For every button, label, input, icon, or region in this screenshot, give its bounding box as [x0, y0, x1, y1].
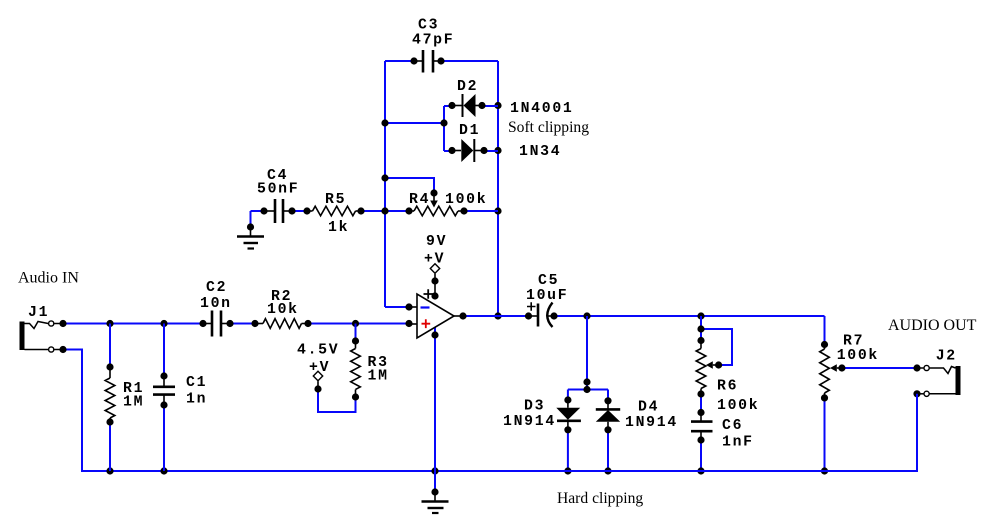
svg-text:C1: C1 — [186, 375, 207, 391]
potentiometer R6 — [696, 341, 718, 395]
svg-text:1M: 1M — [368, 369, 389, 385]
label C3 — [418, 18, 439, 34]
svg-text:D2: D2 — [457, 79, 478, 95]
wire: R5 / R4 row — [251, 207, 499, 227]
label C2 — [206, 280, 227, 296]
capacitor C4 — [264, 199, 292, 223]
svg-text:+V: +V — [424, 252, 445, 268]
label 50nF — [257, 182, 299, 198]
svg-text:10n: 10n — [200, 296, 232, 312]
svg-text:1k: 1k — [328, 220, 349, 236]
wire: D1 row — [444, 147, 498, 154]
svg-text:10uF: 10uF — [526, 288, 568, 304]
wire: R1 legs — [106, 324, 113, 472]
svg-text:R5: R5 — [325, 192, 346, 208]
wire: input signal row J1 tip to C2 — [59, 320, 206, 327]
svg-text:1N914: 1N914 — [503, 414, 556, 430]
wire: C3 top row — [385, 57, 498, 64]
wire: op-amp output row — [459, 312, 824, 344]
svg-text:1N914: 1N914 — [625, 415, 678, 431]
connector J2 output jack — [918, 365, 961, 396]
svg-text:50nF: 50nF — [257, 182, 299, 198]
label D3 — [524, 399, 545, 415]
wire: ground rail — [59, 346, 917, 475]
svg-text:C6: C6 — [722, 418, 743, 434]
capacitor C2 — [203, 311, 230, 337]
label 1N914 D3 — [503, 414, 556, 430]
resistor R1 — [105, 367, 115, 422]
label J1 — [28, 305, 49, 321]
svg-text:4.5V: 4.5V — [297, 343, 339, 359]
label Hard clipping — [557, 490, 643, 507]
label D1 — [459, 123, 480, 139]
label Soft clipping — [508, 119, 589, 136]
label 1M R1 — [123, 395, 144, 411]
svg-text:D3: D3 — [524, 399, 545, 415]
svg-text:1nF: 1nF — [722, 435, 754, 451]
label 100k R6 — [717, 398, 759, 414]
ground main — [422, 488, 449, 513]
label 1N34 — [519, 144, 561, 160]
label J2 — [936, 349, 957, 365]
wire: D3 to ground rail — [564, 426, 571, 474]
wire: op-amp negative rail to ground — [431, 328, 438, 493]
label 1N914 D4 — [625, 415, 678, 431]
power +V 9V — [430, 264, 439, 300]
wire: D2 row — [444, 102, 498, 109]
label +V 9V — [424, 252, 445, 268]
wire: R2 to op-amp non-inverting input — [304, 320, 412, 327]
svg-text:J1: J1 — [28, 305, 49, 321]
label R3 — [368, 355, 389, 371]
connector J1 input jack — [20, 321, 61, 352]
label 100k R7 — [837, 348, 879, 364]
wire: clipping diodes drop — [564, 316, 611, 404]
diode D1 — [452, 139, 484, 162]
svg-text:R6: R6 — [717, 379, 738, 395]
capacitor C6 — [691, 413, 713, 441]
resistor R2 — [255, 319, 308, 329]
ground for C4 — [237, 223, 264, 248]
label R7 — [843, 334, 864, 350]
label AUDIO OUT — [888, 317, 977, 334]
label +V 4.5V — [309, 360, 330, 376]
svg-text:C5: C5 — [538, 273, 559, 289]
wire: J2 sleeve drop — [913, 390, 920, 471]
svg-text:100k: 100k — [837, 348, 879, 364]
label Audio IN — [18, 270, 79, 287]
svg-text:Hard clipping: Hard clipping — [557, 490, 643, 507]
svg-text:100k: 100k — [445, 192, 487, 208]
wire: D4 to ground rail — [604, 426, 611, 474]
svg-text:10k: 10k — [267, 302, 299, 318]
wire: C6 to ground rail — [697, 436, 704, 474]
label R2 — [271, 289, 292, 305]
label C6 — [722, 418, 743, 434]
potentiometer R4 — [409, 193, 464, 216]
svg-text:Soft clipping: Soft clipping — [508, 119, 589, 136]
wire: R7 wiper to J2 tip — [838, 364, 920, 371]
wire: right feedback vertical bus — [494, 61, 501, 320]
svg-text:C3: C3 — [418, 18, 439, 34]
label 1M R3 — [368, 369, 389, 385]
svg-text:100k: 100k — [717, 398, 759, 414]
capacitor C5 polarized — [525, 302, 558, 327]
label 10uF — [526, 288, 568, 304]
diode D4 — [596, 401, 620, 430]
wire: R4 wiper feed — [381, 174, 437, 196]
label R6 — [717, 379, 738, 395]
svg-text:1N4001: 1N4001 — [510, 101, 573, 117]
capacitor C3 — [414, 50, 441, 73]
label 1k — [328, 220, 349, 236]
label C4 — [267, 168, 288, 184]
label 9V — [426, 234, 447, 250]
label 1N4001 — [510, 101, 573, 117]
label C5 — [538, 273, 559, 289]
label 10k — [267, 302, 299, 318]
svg-text:1N34: 1N34 — [519, 144, 561, 160]
resistor R3 — [351, 341, 361, 397]
svg-text:J2: J2 — [936, 349, 957, 365]
resistor R5 — [307, 206, 361, 216]
svg-text:1M: 1M — [123, 395, 144, 411]
svg-text:R4: R4 — [409, 192, 430, 208]
wire: diode pair tap — [381, 106, 447, 151]
diode D3 — [556, 400, 581, 430]
diode D2 — [452, 94, 482, 117]
svg-text:AUDIO OUT: AUDIO OUT — [888, 317, 977, 334]
wire: R3 bottom to 4.5V — [314, 385, 359, 412]
label D4 — [638, 400, 659, 416]
wire: R6 top drop and wiper loop — [697, 316, 732, 369]
svg-text:C2: C2 — [206, 280, 227, 296]
op-amp U1 — [409, 289, 463, 338]
wire: C1 legs — [160, 324, 167, 472]
label D2 — [457, 79, 478, 95]
wire: left feedback vertical bus — [384, 61, 386, 307]
wire: R6 to C6 — [697, 390, 704, 416]
svg-text:47pF: 47pF — [412, 33, 454, 49]
svg-text:1n: 1n — [186, 392, 207, 408]
svg-text:D4: D4 — [638, 400, 659, 416]
capacitor C1 — [153, 376, 175, 405]
label 47pF — [412, 33, 454, 49]
label R5 — [325, 192, 346, 208]
power +V 4.5V — [313, 371, 322, 389]
svg-text:Audio IN: Audio IN — [18, 270, 79, 287]
svg-text:D1: D1 — [459, 123, 480, 139]
wire: C2 to R2 — [226, 320, 258, 327]
label 1n — [186, 392, 207, 408]
label 4.5V — [297, 343, 339, 359]
label 1nF — [722, 435, 754, 451]
potentiometer R7 — [820, 345, 842, 398]
svg-text:+V: +V — [309, 360, 330, 376]
label R1 — [123, 381, 144, 397]
label 10n — [200, 296, 232, 312]
label C1 — [186, 375, 207, 391]
svg-text:9V: 9V — [426, 234, 447, 250]
label R4 — [409, 192, 430, 208]
wire: R7 bottom to ground rail — [821, 341, 828, 475]
label 100k R4 — [445, 192, 487, 208]
wire: R3 top tap — [352, 324, 359, 345]
wire: inverting input to feedback bus — [385, 303, 413, 310]
